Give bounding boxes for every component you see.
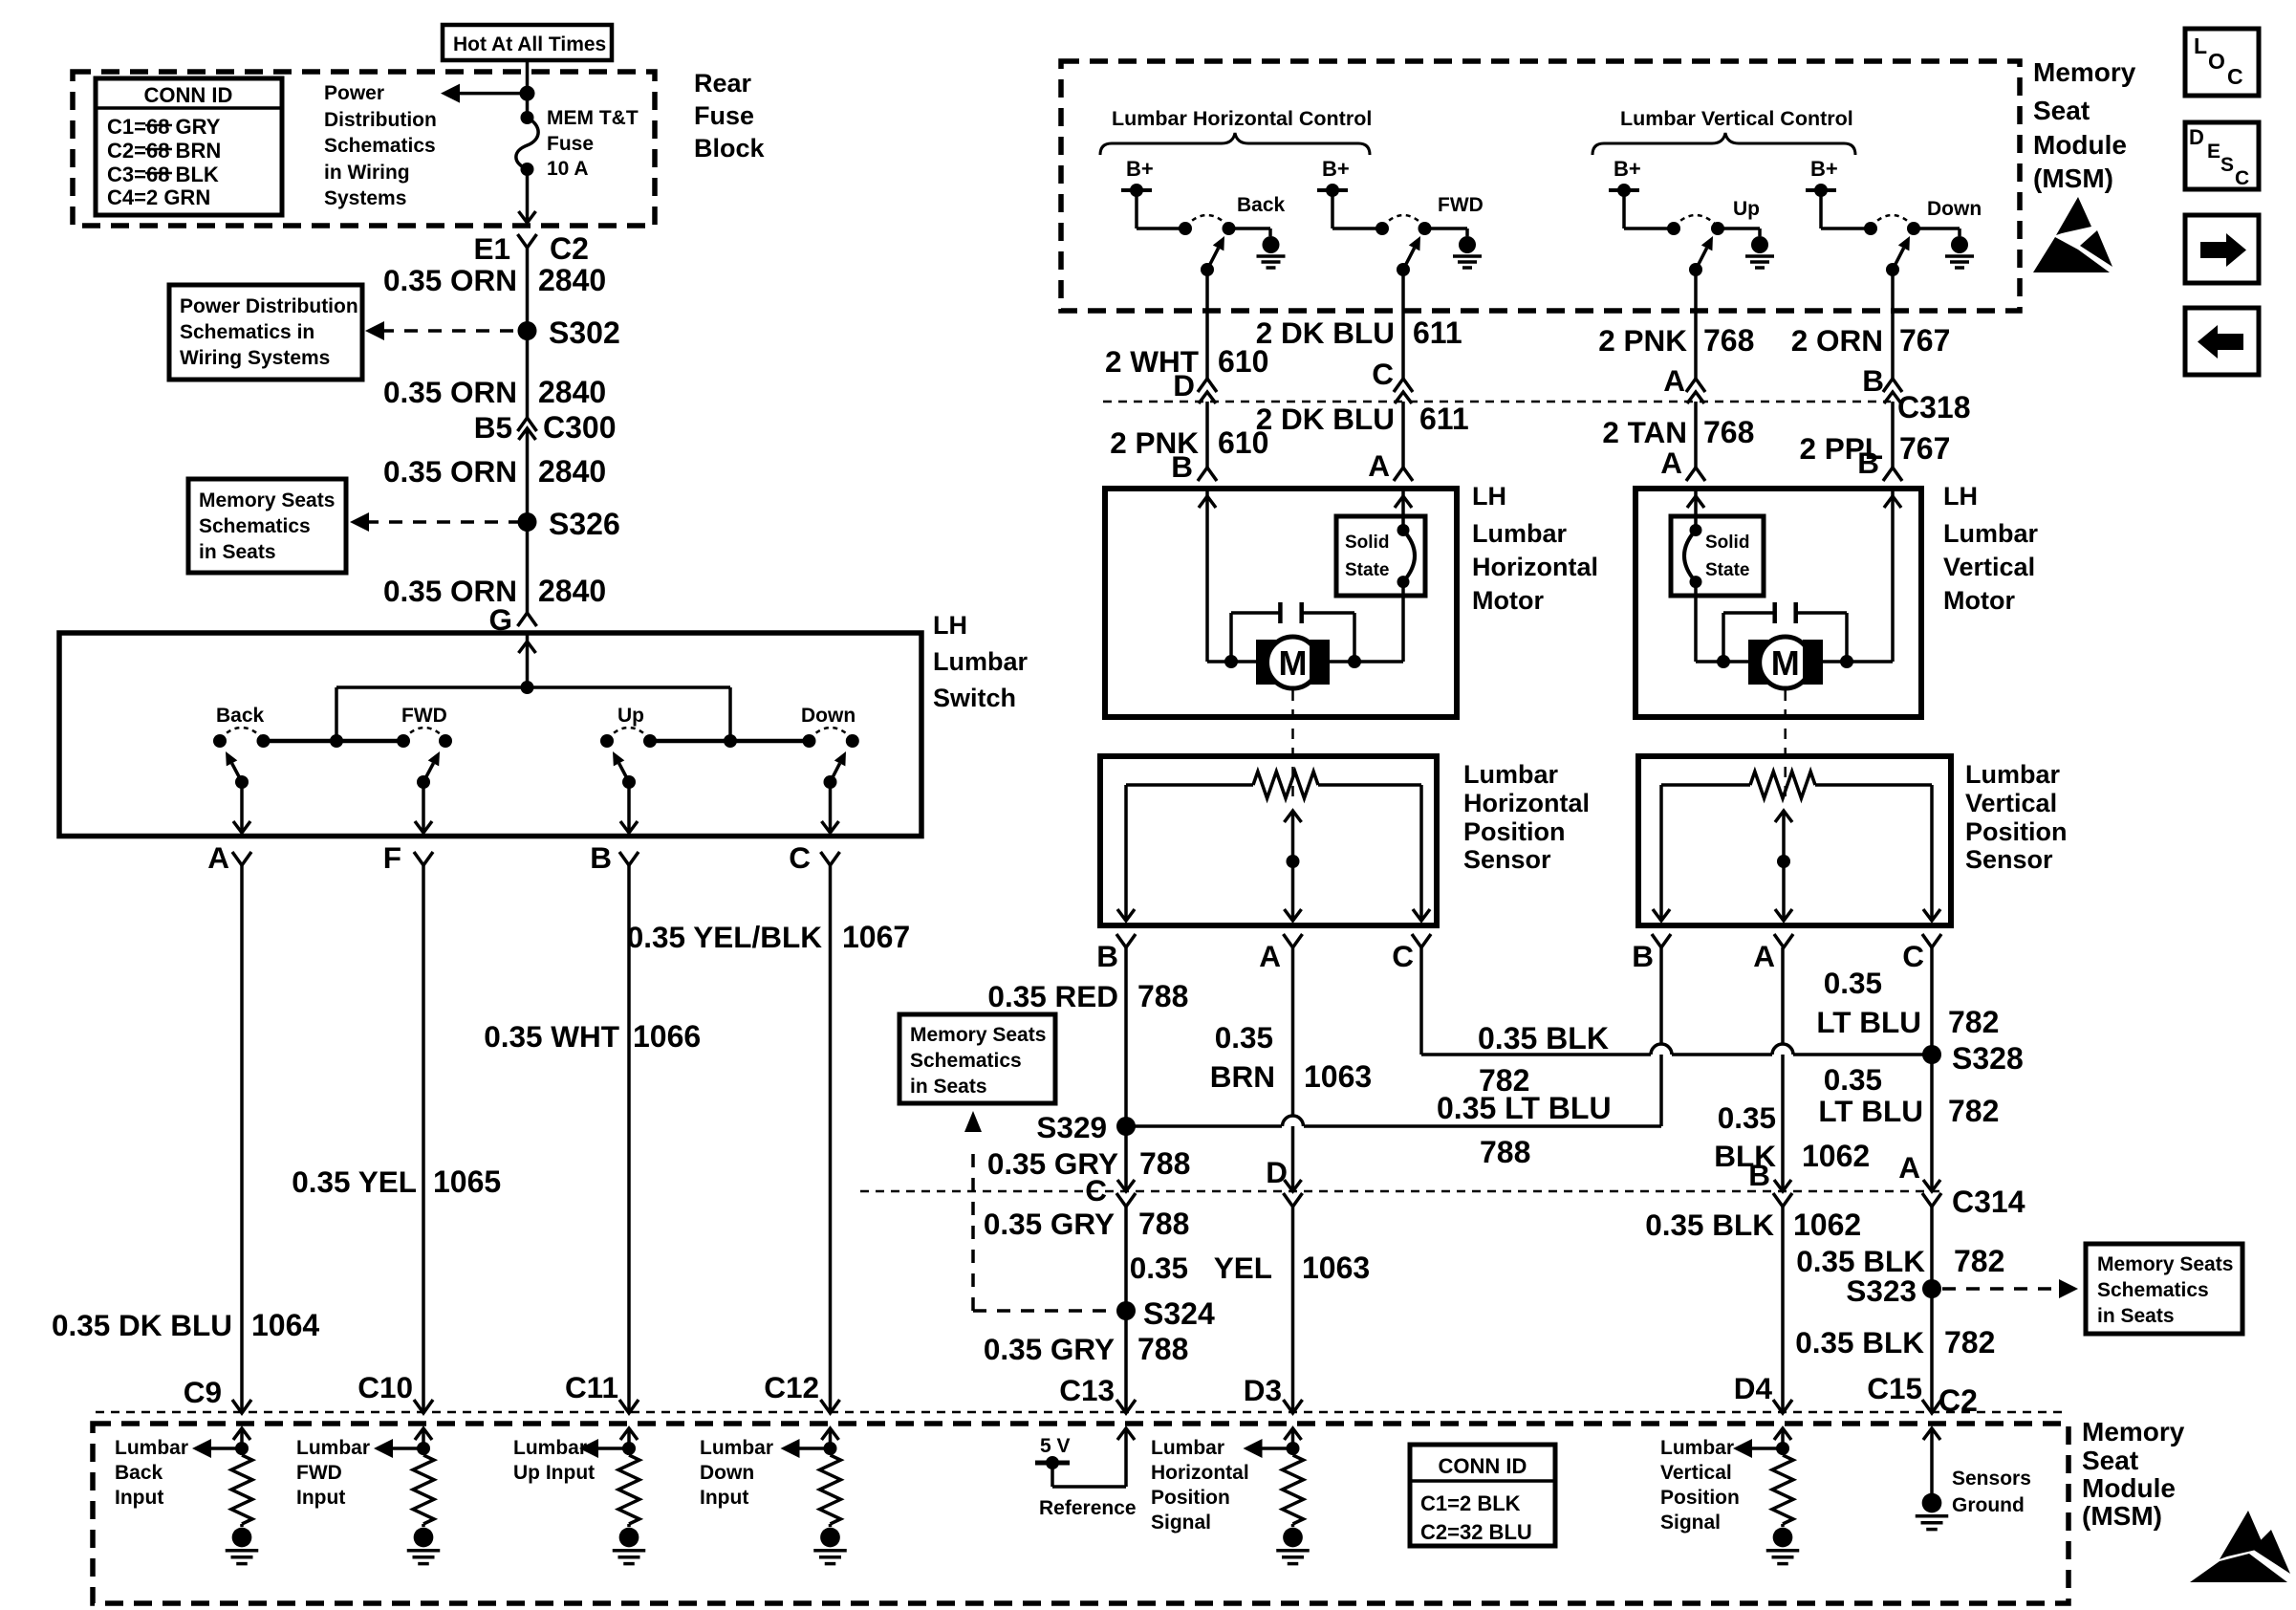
connector pin C10 fork	[414, 1400, 433, 1413]
lumbar horizontal position sensor box	[1100, 756, 1437, 925]
solid state box (horizontal motor)	[1336, 516, 1425, 596]
svg-text:L: L	[2194, 33, 2207, 58]
sensor pin C fork (horizontal)	[1412, 934, 1431, 947]
svg-text:LH: LH	[1472, 482, 1506, 511]
svg-text:1064: 1064	[251, 1308, 319, 1342]
contact wire up-down	[650, 739, 810, 744]
svg-text:C: C	[1372, 357, 1394, 391]
wire C318 to horizontal motor pin A	[1401, 402, 1405, 468]
svg-text:C10: C10	[357, 1370, 413, 1404]
splice S302	[518, 321, 537, 340]
arrow to power distribution (left)	[457, 92, 528, 96]
wire S302 to C300	[526, 331, 530, 418]
svg-text:MEM T&T: MEM T&T	[547, 107, 639, 129]
svg-text:LT BLU: LT BLU	[1816, 1005, 1921, 1039]
MSM lumbar back input (C9)	[233, 1428, 250, 1440]
svg-text:(MSM): (MSM)	[2033, 163, 2113, 193]
svg-text:E: E	[2207, 141, 2220, 163]
svg-text:C: C	[1392, 939, 1414, 973]
svg-text:C13: C13	[1059, 1373, 1115, 1407]
sensor wiper (vertical)	[1775, 811, 1792, 822]
connector C318 dashed line	[1103, 401, 1891, 403]
svg-text:C2=68 BRN: C2=68 BRN	[107, 139, 221, 163]
svg-text:0.35 RED: 0.35 RED	[987, 979, 1118, 1013]
LH lumbar switch box	[59, 633, 921, 837]
wire C314 to D4	[1781, 1205, 1785, 1411]
svg-text:A: A	[1259, 939, 1281, 973]
wire B inside vertical motor	[1891, 489, 1895, 662]
wire A to C9	[240, 865, 244, 1411]
svg-text:Systems: Systems	[324, 187, 406, 209]
svg-text:F: F	[383, 840, 401, 875]
svg-text:Memory: Memory	[2082, 1417, 2185, 1447]
MSM up switch lever	[1689, 263, 1702, 276]
svg-text:Up: Up	[1733, 198, 1760, 220]
svg-text:Schematics: Schematics	[2097, 1279, 2209, 1301]
svg-text:Up Input: Up Input	[513, 1462, 595, 1484]
sensor leg B (vertical)	[1659, 785, 1663, 919]
svg-text:LT BLU: LT BLU	[1818, 1094, 1923, 1128]
motor pin B fork (horizontal motor)	[1198, 468, 1217, 481]
svg-text:768: 768	[1703, 415, 1754, 449]
svg-text:C2: C2	[1939, 1383, 1978, 1418]
svg-text:C318: C318	[1897, 390, 1971, 424]
svg-text:0.35 GRY: 0.35 GRY	[984, 1207, 1115, 1241]
svg-text:in Seats: in Seats	[2097, 1305, 2175, 1327]
svg-text:D: D	[1266, 1155, 1288, 1189]
svg-text:Input: Input	[296, 1487, 345, 1509]
rear fuse block dashed enclosure	[73, 72, 655, 226]
note box: Memory Seats Schematics in Seats (middle)	[899, 1014, 1055, 1103]
svg-text:B+: B+	[1322, 157, 1350, 181]
svg-text:Vertical: Vertical	[1943, 553, 2035, 581]
MSM fwd switch lever	[1397, 263, 1410, 276]
motor M armature (vertical)	[1696, 660, 1748, 664]
wire S329 to C314 pin C	[1124, 1126, 1128, 1191]
svg-text:Reference: Reference	[1039, 1497, 1137, 1519]
dashed reference arrow from S323 to note box	[1942, 1287, 2051, 1291]
svg-text:Signal: Signal	[1151, 1512, 1211, 1534]
svg-text:Back: Back	[216, 705, 265, 727]
svg-text:CONN ID: CONN ID	[144, 83, 233, 107]
wire fwd control to C318	[1401, 270, 1405, 379]
svg-text:BLK: BLK	[1714, 1139, 1776, 1173]
svg-text:Solid: Solid	[1705, 533, 1749, 553]
svg-text:C12: C12	[764, 1370, 819, 1404]
svg-text:Lumbar: Lumbar	[700, 1437, 773, 1459]
svg-text:Down: Down	[1927, 198, 1982, 220]
C314 pin C	[1117, 1180, 1135, 1191]
switch FWD output wire	[422, 782, 425, 831]
svg-text:State: State	[1345, 560, 1389, 580]
svg-text:Signal: Signal	[1660, 1512, 1721, 1534]
wire C318 to horizontal motor pin B	[1205, 402, 1209, 468]
svg-text:1066: 1066	[633, 1019, 701, 1054]
C314 pin B	[1774, 1180, 1791, 1191]
note box: Memory Seats Schematics in Seats (left)	[188, 479, 346, 573]
wire C to C12	[829, 865, 833, 1411]
switch Back lever	[235, 775, 249, 789]
dashed reference arrow from S326	[365, 520, 520, 524]
switch Down lever	[824, 775, 837, 789]
bus right leg	[728, 687, 732, 741]
splice S324	[1116, 1301, 1136, 1320]
sensor leg C (horizontal)	[1419, 785, 1423, 919]
svg-text:Module: Module	[2082, 1473, 2176, 1503]
svg-text:0.35 YEL/BLK: 0.35 YEL/BLK	[627, 920, 822, 954]
svg-text:Vertical: Vertical	[1965, 789, 2057, 817]
svg-text:Sensor: Sensor	[1463, 845, 1551, 874]
svg-text:Position: Position	[1151, 1487, 1230, 1509]
junction dot at power feed	[520, 86, 535, 101]
wire C318 to vertical motor pin B	[1891, 402, 1895, 468]
svg-text:Schematics in: Schematics in	[180, 321, 314, 343]
sensor wiper (horizontal)	[1285, 811, 1302, 822]
svg-text:S326: S326	[549, 507, 620, 541]
svg-text:5 V: 5 V	[1040, 1435, 1071, 1457]
C318 pin C	[1394, 379, 1413, 392]
sensor leg B (horizontal)	[1124, 785, 1128, 919]
switch Down output wire	[829, 782, 833, 831]
wire S324 to C13	[1124, 1311, 1128, 1411]
capacitor (vertical motor)	[1723, 611, 1774, 615]
svg-text:788: 788	[1137, 1332, 1188, 1366]
svg-text:Seat: Seat	[2082, 1446, 2138, 1475]
svg-text:B+: B+	[1614, 157, 1641, 181]
svg-text:Memory Seats: Memory Seats	[199, 490, 335, 511]
MSM lumbar fwd input (C10)	[415, 1428, 432, 1440]
lumbar vertical position sensor box	[1638, 756, 1951, 925]
motor pin A fork (horizontal motor)	[1394, 468, 1413, 481]
svg-text:Sensors: Sensors	[1952, 1468, 2031, 1490]
hop over D3 wire	[1283, 1116, 1304, 1126]
connector pin D4 fork	[1773, 1400, 1792, 1413]
wire vertical sensor A to C314 pin B	[1781, 947, 1785, 1191]
switch Back output wire	[240, 782, 244, 831]
icon box LOC	[2185, 29, 2259, 96]
splice S326	[518, 512, 537, 532]
sensor pin B fork (horizontal)	[1116, 934, 1136, 947]
MSM back switch lever	[1201, 263, 1214, 276]
splice S323	[1922, 1279, 1941, 1298]
svg-text:FWD: FWD	[296, 1462, 342, 1484]
svg-text:Lumbar: Lumbar	[1151, 1437, 1224, 1459]
ground (up control)	[1751, 236, 1768, 253]
dashed mechanical link (vertical motor to sensor)	[1784, 690, 1787, 801]
connector pin C9 fork	[232, 1400, 251, 1413]
svg-text:782: 782	[1948, 1094, 1999, 1128]
svg-text:B: B	[1096, 939, 1118, 973]
potentiometer track (vertical sensor)	[1661, 783, 1750, 787]
wire C314 to D3	[1291, 1205, 1295, 1411]
svg-text:782: 782	[1948, 1005, 1999, 1039]
svg-text:S324: S324	[1143, 1296, 1215, 1331]
svg-text:0.35 BLK: 0.35 BLK	[1645, 1207, 1774, 1242]
wire C318 to vertical motor pin A	[1694, 402, 1698, 468]
LH lumbar vertical motor box	[1635, 489, 1921, 717]
sensor pin B fork (vertical)	[1652, 934, 1671, 947]
svg-text:S302: S302	[549, 315, 620, 350]
MSM down switch lever	[1886, 263, 1899, 276]
MSM up switch contacts	[1624, 227, 1674, 230]
svg-text:FWD: FWD	[401, 705, 447, 727]
svg-text:C1=68 GRY: C1=68 GRY	[107, 115, 221, 139]
wire C314 to S323	[1930, 1205, 1934, 1289]
ground (down control)	[1951, 236, 1968, 253]
svg-text:782: 782	[1954, 1244, 2004, 1278]
svg-text:0.35 BLK: 0.35 BLK	[1795, 1325, 1924, 1360]
svg-text:Lumbar: Lumbar	[1660, 1437, 1734, 1459]
switch feed bus	[336, 685, 730, 689]
wire down control to C318	[1891, 270, 1895, 379]
ESD sensitivity symbol (top)	[2056, 197, 2091, 235]
svg-text:Sensor: Sensor	[1965, 845, 2053, 874]
MSM fwd switch contacts	[1332, 227, 1382, 230]
svg-text:Lumbar: Lumbar	[1965, 760, 2061, 789]
icon box left arrow	[2185, 308, 2259, 375]
solid state switch arc (vertical motor)	[1694, 489, 1698, 531]
connector pin D3 fork	[1284, 1400, 1303, 1413]
svg-text:Switch: Switch	[933, 684, 1016, 712]
svg-text:Lumbar: Lumbar	[115, 1437, 188, 1459]
svg-text:Back: Back	[1237, 194, 1286, 216]
svg-text:0.35 ORN: 0.35 ORN	[383, 375, 517, 409]
svg-text:B: B	[1857, 446, 1879, 480]
motor pin A fork (vertical motor)	[1686, 468, 1705, 481]
ground (back control)	[1263, 236, 1280, 253]
svg-text:Memory Seats: Memory Seats	[910, 1024, 1046, 1046]
svg-text:1063: 1063	[1304, 1059, 1372, 1094]
svg-text:2840: 2840	[538, 454, 606, 489]
svg-text:S328: S328	[1952, 1041, 2024, 1076]
svg-text:B: B	[590, 840, 612, 875]
connector pin C11 fork	[619, 1400, 639, 1413]
svg-text:CONN ID: CONN ID	[1439, 1454, 1527, 1478]
svg-text:Lumbar: Lumbar	[933, 647, 1029, 676]
svg-text:S329: S329	[1036, 1110, 1107, 1144]
hop over D4 wire	[1772, 1044, 1793, 1055]
svg-text:0.35: 0.35	[1824, 1062, 1882, 1097]
wire vertical sensor C to S328	[1930, 947, 1934, 1055]
svg-text:Fuse: Fuse	[694, 101, 754, 130]
svg-text:C15: C15	[1867, 1371, 1922, 1405]
note box: Power Distribution Schematics in Wiring Systems	[169, 285, 362, 380]
svg-text:D: D	[1173, 368, 1195, 402]
svg-text:D3: D3	[1244, 1373, 1282, 1407]
svg-text:782: 782	[1479, 1063, 1529, 1098]
dashed reference arrow from S302	[380, 329, 520, 333]
svg-text:782: 782	[1944, 1325, 1995, 1360]
svg-text:Schematics: Schematics	[910, 1050, 1022, 1072]
svg-text:Power: Power	[324, 82, 384, 104]
wire C314 to S324	[1124, 1205, 1128, 1311]
switch pin B fork	[619, 852, 639, 865]
svg-text:C9: C9	[184, 1375, 222, 1409]
svg-text:0.35: 0.35	[1718, 1100, 1776, 1135]
bus left leg	[335, 687, 338, 741]
splice S329	[1116, 1117, 1136, 1136]
svg-text:767: 767	[1899, 431, 1950, 466]
svg-text:Seat: Seat	[2033, 96, 2090, 125]
svg-text:0.35 ORN: 0.35 ORN	[383, 263, 517, 297]
ground (fwd control)	[1459, 236, 1476, 253]
svg-text:Rear: Rear	[694, 69, 752, 98]
svg-text:Power Distribution: Power Distribution	[180, 295, 358, 317]
brace lumbar horizontal control	[1100, 133, 1370, 155]
svg-text:1062: 1062	[1802, 1139, 1870, 1173]
svg-text:B+: B+	[1126, 157, 1154, 181]
switch Back contacts	[213, 734, 227, 748]
svg-text:C: C	[789, 840, 811, 875]
svg-text:0.35 WHT: 0.35 WHT	[484, 1019, 619, 1054]
MSM down switch contacts	[1821, 227, 1871, 230]
switch pin C fork	[821, 852, 840, 865]
svg-text:Position: Position	[1965, 817, 2068, 846]
svg-text:C2: C2	[550, 231, 589, 266]
C314 pin D	[1285, 1180, 1302, 1191]
svg-text:Memory: Memory	[2033, 57, 2136, 87]
switch Down contacts	[803, 734, 816, 748]
svg-text:S323: S323	[1846, 1273, 1917, 1308]
svg-text:B: B	[1171, 449, 1193, 484]
svg-text:Hot At All Times: Hot At All Times	[453, 33, 606, 55]
svg-text:1063: 1063	[1302, 1251, 1370, 1285]
svg-text:C11: C11	[565, 1370, 618, 1404]
svg-text:Motor: Motor	[1943, 586, 2015, 615]
switch FWD lever	[417, 775, 430, 789]
MSM lumbar horizontal position signal (D3)	[1285, 1428, 1302, 1440]
connector C300 pin B5	[518, 418, 537, 431]
svg-text:LH: LH	[1943, 482, 1978, 511]
svg-text:1065: 1065	[433, 1164, 501, 1199]
potentiometer track (horizontal sensor)	[1126, 783, 1253, 787]
svg-text:(MSM): (MSM)	[2082, 1501, 2162, 1531]
wire C300 to S326	[526, 428, 530, 522]
svg-text:C: C	[2227, 64, 2243, 89]
svg-text:State: State	[1705, 560, 1749, 580]
switch Up output wire	[627, 782, 631, 831]
svg-text:Module: Module	[2033, 130, 2127, 160]
connector C2 pin E1 fork	[518, 234, 537, 248]
svg-text:Ground: Ground	[1952, 1494, 2025, 1516]
MSM 5V reference (C13)	[1117, 1428, 1135, 1440]
fuse MEM T&T 10A	[521, 111, 534, 124]
MSM lumbar down input (C12)	[822, 1428, 839, 1440]
motor pin B fork (vertical motor)	[1883, 468, 1902, 481]
hop over vertical sensor B wire	[1651, 1044, 1672, 1055]
svg-text:O: O	[2208, 49, 2225, 74]
svg-text:788: 788	[1138, 1207, 1189, 1241]
svg-text:1067: 1067	[842, 920, 910, 954]
connector C314 dashed line	[860, 1190, 1942, 1193]
svg-text:Vertical: Vertical	[1660, 1462, 1732, 1484]
svg-text:788: 788	[1139, 1146, 1190, 1181]
svg-text:0.35 DK BLU: 0.35 DK BLU	[52, 1308, 232, 1342]
svg-text:Lumbar: Lumbar	[1472, 519, 1568, 548]
svg-text:0.35: 0.35	[1130, 1251, 1188, 1285]
svg-text:C1=2 BLK: C1=2 BLK	[1420, 1491, 1521, 1515]
svg-text:Position: Position	[1660, 1487, 1740, 1509]
svg-text:2 DK BLU: 2 DK BLU	[1256, 402, 1395, 436]
C318 pin B	[1883, 379, 1902, 392]
svg-text:Position: Position	[1463, 817, 1566, 846]
svg-text:1062: 1062	[1793, 1207, 1861, 1242]
svg-text:Wiring Systems: Wiring Systems	[180, 347, 330, 369]
wire S326 to switch pin G	[526, 522, 530, 613]
svg-text:C: C	[2235, 167, 2249, 189]
solid state switch arc (horizontal motor)	[1401, 489, 1405, 531]
LH lumbar horizontal motor box	[1105, 489, 1457, 717]
switch Up contacts	[600, 734, 614, 748]
bottom inline connector dashed line	[96, 1411, 2065, 1414]
svg-text:788: 788	[1480, 1135, 1530, 1169]
svg-text:10 A: 10 A	[547, 158, 589, 180]
svg-text:Horizontal: Horizontal	[1472, 553, 1598, 581]
wire sensor A to C314 pin D	[1291, 947, 1295, 1191]
connector pin C12 fork	[821, 1400, 840, 1413]
svg-text:Back: Back	[115, 1462, 163, 1484]
svg-text:in Wiring: in Wiring	[324, 162, 410, 184]
wire 0.35 BLK 782 from horizontal sensor C to S328	[1419, 947, 1423, 1055]
svg-text:Input: Input	[700, 1487, 748, 1509]
svg-text:Schematics: Schematics	[324, 135, 436, 157]
wire B inside horizontal motor	[1205, 489, 1209, 662]
icon box DESC	[2185, 122, 2259, 189]
svg-text:Lumbar: Lumbar	[1943, 519, 2039, 548]
switch Up lever	[622, 775, 636, 789]
svg-text:LH: LH	[933, 611, 967, 640]
svg-text:C: C	[1085, 1173, 1107, 1207]
svg-text:M: M	[1771, 643, 1800, 683]
svg-text:B+: B+	[1810, 157, 1838, 181]
wire S328 to C314 pin A	[1930, 1055, 1934, 1191]
svg-text:Lumbar: Lumbar	[513, 1437, 587, 1459]
svg-text:768: 768	[1703, 323, 1754, 358]
svg-text:C4=2 GRN: C4=2 GRN	[107, 185, 210, 209]
svg-text:YEL: YEL	[1214, 1251, 1272, 1285]
conn id table (bottom MSM)	[1410, 1445, 1555, 1546]
svg-text:611: 611	[1419, 402, 1469, 436]
connector pin C13 fork	[1116, 1400, 1136, 1413]
svg-text:in Seats: in Seats	[910, 1076, 987, 1098]
svg-text:B5: B5	[474, 410, 512, 445]
contact wire back-fwd	[264, 739, 404, 744]
C318 pin A	[1686, 379, 1705, 392]
note box: Memory Seats Schematics in Seats (right)	[2086, 1244, 2242, 1334]
svg-text:C2=32 BLU: C2=32 BLU	[1420, 1520, 1532, 1544]
svg-text:FWD: FWD	[1438, 194, 1484, 216]
svg-text:D4: D4	[1734, 1371, 1773, 1405]
svg-text:A: A	[1753, 939, 1775, 973]
svg-text:Schematics: Schematics	[199, 515, 311, 537]
svg-text:Block: Block	[694, 134, 766, 163]
svg-text:0.35 BLK: 0.35 BLK	[1478, 1021, 1609, 1055]
wire vertical sensor B down to LT BLU run	[1659, 947, 1663, 1126]
svg-text:Up: Up	[617, 705, 644, 727]
svg-text:A: A	[1660, 446, 1682, 480]
wire F to C10	[422, 865, 425, 1411]
svg-text:0.35: 0.35	[1824, 966, 1882, 1000]
ESD sensitivity symbol (bottom)	[2220, 1511, 2264, 1559]
wire fuse to connector E1	[526, 169, 530, 221]
connector pin C15 fork	[1922, 1400, 1941, 1413]
sensor pin A fork (horizontal)	[1284, 934, 1303, 947]
svg-text:C3=68 BLK: C3=68 BLK	[107, 163, 219, 186]
svg-text:A: A	[207, 840, 229, 875]
MSM lumbar vertical position signal (D4)	[1774, 1428, 1791, 1440]
MSM lumbar up input (C11)	[620, 1428, 638, 1440]
svg-text:0.35 ORN: 0.35 ORN	[383, 454, 517, 489]
